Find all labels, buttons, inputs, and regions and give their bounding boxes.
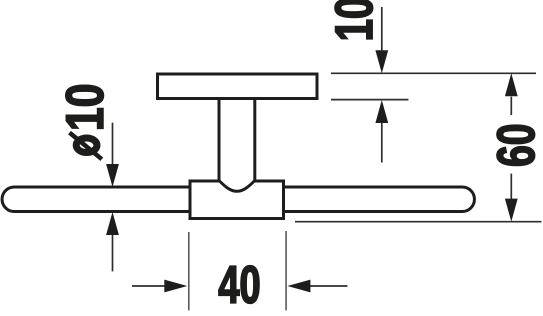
reference line plate bottom level: [331, 99, 409, 101]
extension line 40 right: [285, 231, 287, 310]
dimension 60 lower arrow and tail: [505, 174, 518, 222]
dimension text 60: [497, 125, 535, 165]
dimension 10 upper arrow and tail: [375, 7, 388, 73]
dimension text 40: [219, 266, 259, 304]
dimension text o10: [66, 85, 104, 159]
dimension 40 left arrow and tail: [132, 280, 187, 293]
bar right segment: [284, 187, 475, 212]
dimension o10 arrow to bar bottom: [106, 212, 119, 271]
dimension 40 right arrow and tail: [287, 280, 347, 293]
stem with notch curve: [219, 99, 255, 192]
extension line 40 left: [188, 232, 190, 310]
reference line bottom (60 dimension): [295, 221, 542, 223]
dimension 60 upper arrow and tail: [505, 73, 518, 115]
dimension o10 arrow to bar top: [106, 123, 119, 187]
mounting plate: [158, 74, 318, 99]
reference line plate top level: [331, 72, 536, 74]
dimension 10 lower arrow and tail: [375, 100, 388, 163]
center block: [190, 181, 284, 219]
bar left segment: [2, 187, 190, 212]
dimension text 10: [335, 0, 373, 39]
